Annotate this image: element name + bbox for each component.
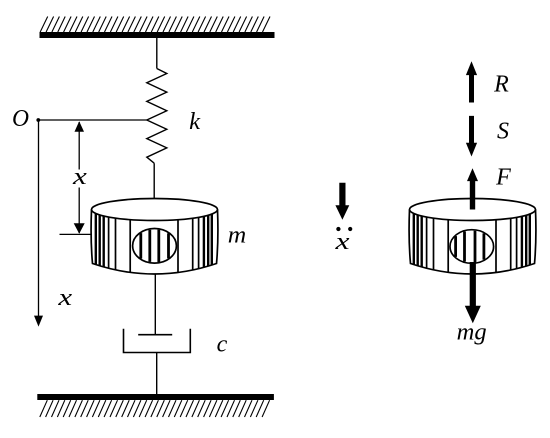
svg-text:S: S <box>497 118 509 144</box>
dimension tick <box>60 233 92 235</box>
svg-text:k: k <box>189 109 200 135</box>
svg-text:R: R <box>493 72 509 98</box>
acceleration label x-ddot dots <box>336 227 340 231</box>
floor bar <box>37 394 274 400</box>
wire mass to damper <box>154 275 156 335</box>
svg-text:F: F <box>495 164 511 190</box>
ceiling bar <box>40 32 275 38</box>
wire O to spring <box>38 119 147 121</box>
svg-text:x: x <box>72 164 88 190</box>
floor hatch <box>40 400 270 417</box>
node O point <box>36 118 40 122</box>
damper piston plate <box>138 334 172 336</box>
acceleration arrow <box>335 183 349 220</box>
svg-text:x: x <box>334 229 350 255</box>
wire damper to floor <box>156 353 158 395</box>
force mg arrow <box>465 262 481 323</box>
force S arrow <box>466 116 477 157</box>
mass m drum <box>91 199 218 275</box>
damper cylinder cup c <box>124 329 191 353</box>
force R arrow <box>466 61 477 102</box>
ceiling hatch <box>40 17 270 33</box>
svg-text:mg: mg <box>457 320 487 346</box>
svg-text:c: c <box>217 332 228 358</box>
spring k <box>147 69 167 164</box>
svg-text:O: O <box>12 106 29 132</box>
force F arrow <box>467 168 478 209</box>
dimension arrow x <box>78 122 80 170</box>
wire ceiling to spring <box>156 38 158 69</box>
free body mass drum <box>409 199 536 275</box>
svg-text:m: m <box>228 223 247 249</box>
wire spring to mass <box>153 163 155 199</box>
svg-text:x: x <box>57 285 72 311</box>
x axis line with arrow <box>38 120 40 317</box>
